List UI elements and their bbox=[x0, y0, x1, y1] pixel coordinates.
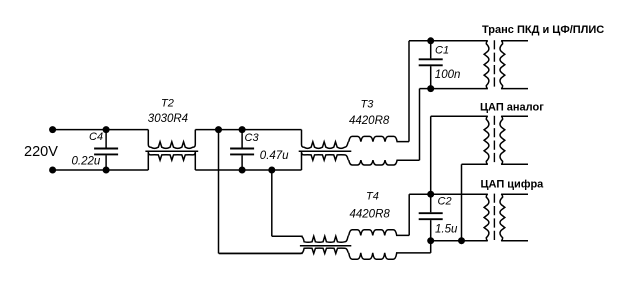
svg-text:1.5u: 1.5u bbox=[435, 224, 458, 236]
svg-text:C4: C4 bbox=[89, 131, 103, 143]
svg-text:C2: C2 bbox=[438, 196, 452, 208]
svg-text:100n: 100n bbox=[435, 69, 461, 81]
svg-text:ЦАП аналог: ЦАП аналог bbox=[480, 102, 544, 114]
svg-text:ЦАП цифра: ЦАП цифра bbox=[481, 179, 545, 191]
svg-text:220V: 220V bbox=[24, 144, 58, 160]
svg-text:0.22u: 0.22u bbox=[72, 156, 101, 168]
svg-text:T2: T2 bbox=[161, 97, 174, 109]
svg-text:3030R4: 3030R4 bbox=[148, 113, 188, 125]
svg-text:C1: C1 bbox=[435, 44, 449, 56]
svg-text:4420R8: 4420R8 bbox=[350, 209, 391, 221]
svg-text:4420R8: 4420R8 bbox=[349, 115, 390, 127]
svg-text:C3: C3 bbox=[245, 132, 260, 144]
svg-text:0.47u: 0.47u bbox=[260, 150, 289, 162]
svg-text:Транс ПКД и ЦФ/ПЛИС: Транс ПКД и ЦФ/ПЛИС bbox=[482, 24, 604, 36]
svg-text:T3: T3 bbox=[361, 98, 375, 110]
svg-text:T4: T4 bbox=[366, 190, 379, 202]
